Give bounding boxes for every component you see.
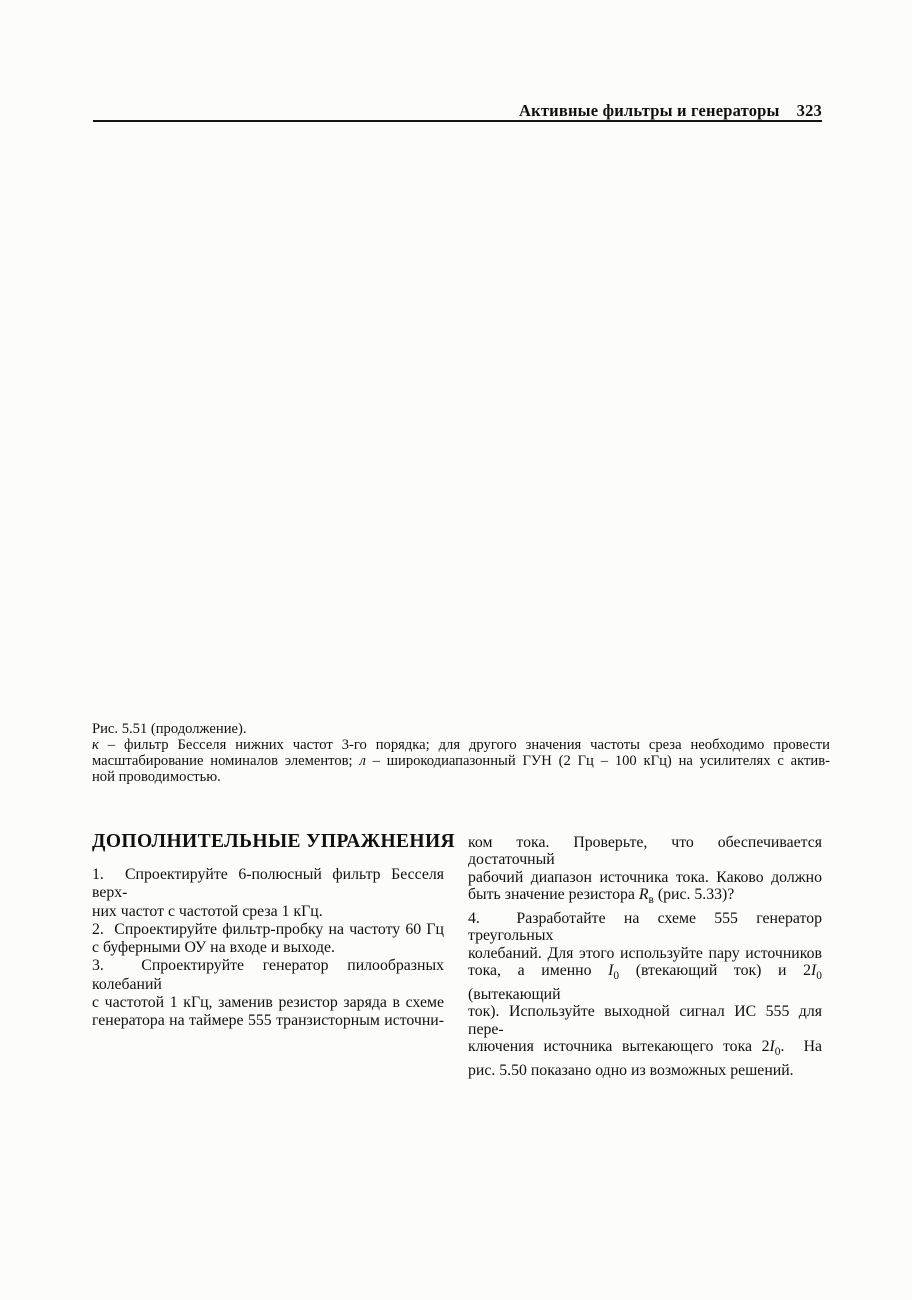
CIRCUITS SVG placeholder (0, 0, 912, 740)
head rule (93, 120, 822, 122)
right column (468, 834, 822, 1079)
running head (0, 101, 822, 121)
left column (92, 866, 444, 1030)
figure caption (92, 721, 830, 738)
section heading (92, 831, 512, 853)
